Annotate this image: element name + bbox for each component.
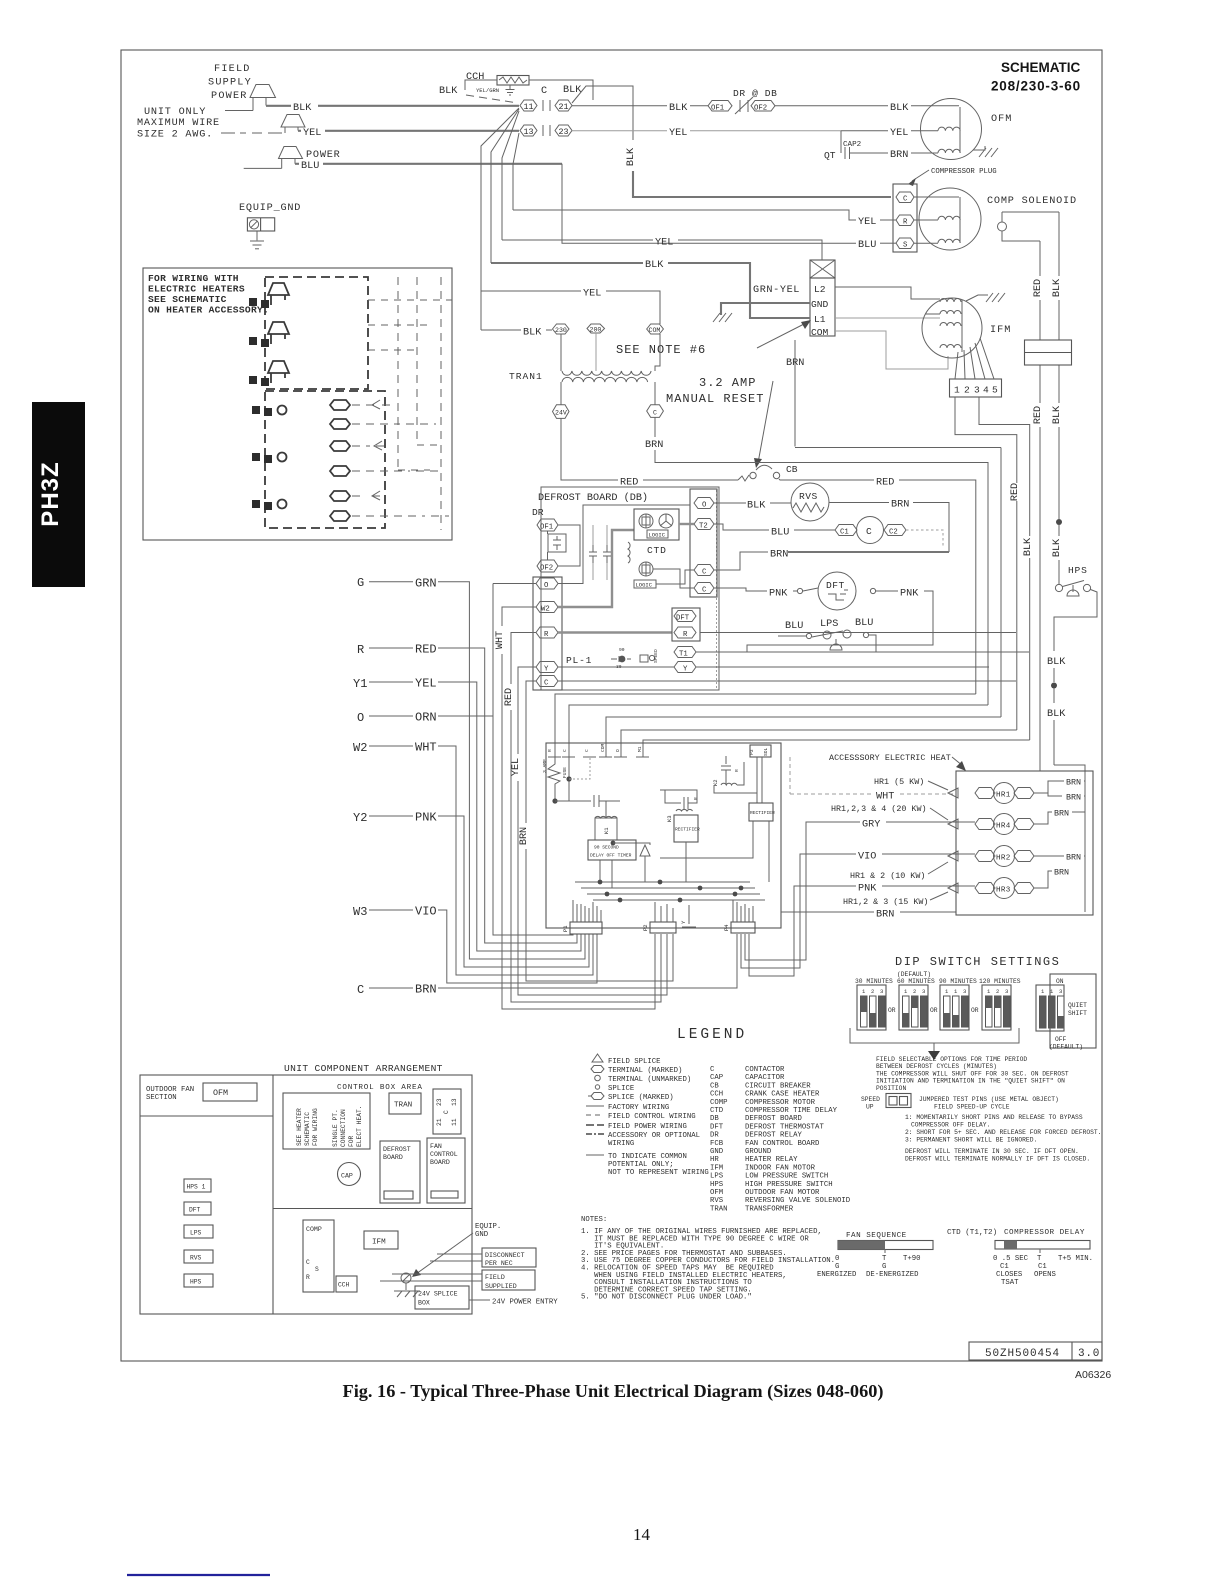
svg-text:LEGEND: LEGEND (677, 1027, 747, 1043)
svg-text:PL-1: PL-1 (566, 655, 592, 666)
svg-text:FOR WIRING WITH: FOR WIRING WITH (148, 273, 239, 284)
svg-text:M1: M1 (637, 746, 643, 752)
svg-text:MAXIMUM WIRE: MAXIMUM WIRE (137, 118, 220, 129)
wire BRN from tran C (645, 417, 988, 705)
svg-text:LPS: LPS (710, 1173, 724, 1181)
svg-text:(DEFAULT): (DEFAULT) (897, 971, 931, 978)
wire BLU T2 to contactor coil (714, 524, 835, 539)
svg-text:C: C (702, 569, 707, 577)
heater relay HR3 (948, 871, 1052, 899)
svg-text:(DEFAULT): (DEFAULT) (1049, 1044, 1083, 1051)
svg-text:ELECT HEAT.: ELECT HEAT. (356, 1105, 363, 1147)
svg-text:CONNECTION: CONNECTION (340, 1109, 347, 1147)
svg-text:FIELD SPEED-UP CYCLE: FIELD SPEED-UP CYCLE (934, 1104, 1010, 1111)
wire BLK contactor 21 to OF1 (572, 103, 708, 114)
svg-text:POWER: POWER (306, 150, 341, 161)
svg-text:C1: C1 (1038, 1263, 1047, 1271)
wire GRY heat relay feed (745, 820, 975, 961)
svg-text:VIO: VIO (858, 852, 876, 863)
run capacitor CAP2 with QT (824, 131, 938, 161)
thermostat terminal R (357, 643, 577, 944)
svg-text:SINGLE PT.: SINGLE PT. (332, 1109, 339, 1147)
DB terminal O (694, 498, 714, 510)
wire C row through board (558, 680, 1016, 682)
svg-text:BLK: BLK (293, 103, 312, 114)
svg-text:JUMPERED TEST PINS (USE METAL: JUMPERED TEST PINS (USE METAL OBJECT) (919, 1096, 1059, 1103)
svg-text:T2: T2 (699, 523, 708, 531)
svg-text:2: 2 (996, 988, 999, 995)
PH3Z model tab (32, 402, 85, 587)
svg-text:DB: DB (710, 1115, 719, 1123)
svg-text:C: C (306, 1259, 310, 1266)
relay K1 (595, 801, 650, 845)
wire BLK solenoid down right bus (1052, 212, 1063, 519)
wire YEL contactor 23 to OFM (572, 128, 938, 139)
svg-text:DEFROST BOARD (DB): DEFROST BOARD (DB) (538, 492, 648, 504)
grounding lug X box (810, 260, 835, 278)
svg-text:ORN: ORN (415, 711, 437, 725)
wire YEL riser to transformer (481, 289, 660, 325)
IFM location box (364, 1231, 398, 1249)
CAP circle (338, 1163, 361, 1186)
equip gnd screw (394, 1273, 420, 1297)
svg-text:TRAN1: TRAN1 (509, 371, 543, 382)
contactor terminal box (433, 1089, 461, 1134)
svg-text:OFF: OFF (1055, 1036, 1067, 1043)
svg-text:TERMINAL (MARKED): TERMINAL (MARKED) (608, 1067, 682, 1075)
svg-text:RECTIFIER: RECTIFIER (675, 827, 700, 833)
svg-text:OFM: OFM (213, 1088, 228, 1098)
svg-text:GRN-YEL: GRN-YEL (753, 285, 800, 296)
svg-text:GRY: GRY (862, 820, 880, 831)
wire BRN heat return (781, 910, 956, 921)
Y terminal (558, 662, 989, 674)
R terminal (674, 627, 1016, 639)
svg-text:C: C (541, 86, 547, 97)
wire L1 from field (491, 262, 643, 264)
svg-text:ON: ON (1056, 978, 1064, 985)
heater plug pin row 4 (330, 466, 441, 476)
svg-text:1: 1 (862, 988, 866, 995)
svg-text:R: R (357, 643, 364, 657)
svg-text:BLU: BLU (855, 618, 873, 629)
svg-text:FIELD SPLICE: FIELD SPLICE (608, 1058, 661, 1066)
crank case heater CCH (439, 72, 593, 102)
svg-text:BRN: BRN (645, 440, 663, 451)
wire BLK junction up from 21 to compressor plug C (572, 86, 891, 197)
svg-text:DFT: DFT (676, 615, 690, 623)
svg-text:DEFROST WILL TERMINATE IN 30 S: DEFROST WILL TERMINATE IN 30 SEC. IF DFT… (905, 1148, 1079, 1155)
svg-text:DEFROST BOARD: DEFROST BOARD (745, 1115, 803, 1123)
svg-text:DFT: DFT (710, 1123, 724, 1131)
FCB terminal M1 (636, 746, 649, 757)
svg-text:23: 23 (559, 127, 569, 137)
svg-text:C: C (562, 749, 568, 752)
svg-text:1: MOMENTARILY SHORT PINS AND: 1: MOMENTARILY SHORT PINS AND RELEASE TO… (905, 1114, 1083, 1121)
svg-text:ENERGIZED: ENERGIZED (817, 1271, 857, 1279)
legend accessory wiring (586, 1132, 700, 1148)
heater relay HR1 (948, 783, 1034, 804)
svg-text:BLK: BLK (1052, 278, 1063, 297)
svg-text:G: G (882, 1263, 886, 1271)
svg-text:OUTDOOR FAN MOTOR: OUTDOOR FAN MOTOR (745, 1189, 820, 1197)
wire BLU power feed (295, 161, 856, 243)
heater accessory dashed harness box upper (265, 277, 368, 389)
svg-text:3: 3 (922, 988, 925, 995)
wire RED solenoid down right bus (1033, 241, 1044, 771)
svg-text:3: 3 (1059, 988, 1062, 995)
DIP block 30 minutes (857, 985, 896, 1030)
field splice arrow L1 feed (225, 85, 276, 111)
svg-text:PNK: PNK (415, 811, 437, 825)
svg-text:CAPACITOR: CAPACITOR (745, 1074, 785, 1082)
thermostat terminal Y2 (353, 811, 589, 968)
svg-text:C: C (443, 1110, 450, 1114)
svg-text:OR: OR (971, 1007, 979, 1014)
svg-text:90: 90 (619, 647, 625, 653)
OFM box (203, 1083, 257, 1101)
svg-text:BRN: BRN (519, 827, 530, 845)
defrost thermostat DFT (818, 572, 856, 610)
svg-text:CAP: CAP (710, 1074, 723, 1082)
CCH box (336, 1276, 357, 1292)
DIP labels (855, 971, 1021, 985)
heater field splice arrow 3 (249, 361, 289, 386)
svg-text:BRN: BRN (786, 358, 804, 369)
svg-text:R: R (683, 631, 688, 639)
svg-text:R: R (544, 631, 549, 639)
svg-text:BRN: BRN (1066, 853, 1081, 863)
heater connection rotated note box (283, 1093, 370, 1149)
svg-text:FIELD POWER WIRING: FIELD POWER WIRING (608, 1123, 687, 1131)
svg-text:24V POWER ENTRY: 24V POWER ENTRY (492, 1299, 558, 1307)
svg-text:0: 0 (835, 1255, 839, 1263)
contactor C terminal 11 (520, 100, 550, 112)
equip gnd callout (412, 1223, 501, 1277)
svg-text:R: R (306, 1274, 310, 1281)
svg-text:60 MINUTES: 60 MINUTES (897, 978, 935, 985)
heater accessory dashed risers (368, 277, 452, 530)
svg-text:3: 3 (1005, 988, 1008, 995)
wire PNK DB C2 to defrost thermostat (714, 588, 818, 600)
svg-text:ELECTRIC HEATERS: ELECTRIC HEATERS (148, 284, 245, 295)
svg-text:G: G (357, 576, 364, 590)
svg-text:LPS: LPS (190, 1230, 202, 1237)
svg-text:LOGIC: LOGIC (636, 582, 653, 589)
FCB terminal C (562, 749, 575, 757)
svg-text:2: SHORT FOR 5+ SEC. AND RELEA: 2: SHORT FOR 5+ SEC. AND RELEASE FOR FOR… (905, 1129, 1102, 1136)
DB terminal T2 (694, 519, 714, 531)
svg-text:PER NEC: PER NEC (485, 1260, 513, 1267)
svg-text:HR2: HR2 (996, 855, 1011, 863)
svg-text:HR1 (5 KW): HR1 (5 KW) (874, 777, 924, 787)
PL-1 pin R (536, 627, 558, 639)
wire RED from PL-1 R down (504, 633, 661, 1003)
svg-text:C: C (903, 196, 908, 204)
svg-text:SPLICE: SPLICE (608, 1085, 634, 1093)
IFM ground (966, 293, 1005, 302)
svg-text:COMP SOLENOID: COMP SOLENOID (987, 196, 1077, 207)
wire RED CB to bus (876, 478, 976, 695)
svg-text:COM: COM (811, 327, 829, 338)
P2 connector (642, 902, 676, 933)
svg-text:LOW PRESSURE SWITCH: LOW PRESSURE SWITCH (745, 1173, 828, 1181)
svg-text:DR: DR (710, 1132, 719, 1140)
contactor C terminal 23 (555, 125, 572, 137)
svg-text:POWER: POWER (211, 91, 248, 102)
DFT location box (184, 1202, 211, 1215)
svg-text:FAN SEQUENCE: FAN SEQUENCE (846, 1232, 907, 1240)
svg-text:CCH: CCH (466, 72, 484, 83)
wire BLK to HPS (1052, 525, 1063, 584)
bus elbow to fan board O (621, 730, 1017, 757)
svg-text:C: C (357, 983, 364, 997)
svg-text:C: C (866, 526, 872, 537)
svg-text:3: 3 (974, 385, 980, 396)
svg-text:DEFROST RELAY: DEFROST RELAY (745, 1132, 803, 1140)
contactor coil terminal C1 (835, 525, 857, 537)
DIP selector bracket (850, 1028, 1019, 1060)
legend factory wiring (586, 1104, 669, 1112)
svg-text:HR3: HR3 (996, 887, 1011, 895)
svg-text:YEL: YEL (415, 677, 437, 691)
svg-text:OR: OR (930, 1007, 938, 1014)
svg-text:HIGH PRESSURE SWITCH: HIGH PRESSURE SWITCH (745, 1181, 833, 1189)
FCB fuse 3 AMP (542, 757, 568, 799)
svg-text:T1: T1 (679, 651, 688, 659)
svg-text:CB: CB (710, 1082, 719, 1090)
PL-1 pin C (536, 676, 558, 688)
wire BLK DB O to RVS (714, 501, 791, 512)
HR3 label line (843, 892, 948, 907)
svg-text:COMPRESSOR MOTOR: COMPRESSOR MOTOR (745, 1099, 816, 1107)
svg-text:BLK: BLK (523, 328, 542, 339)
svg-text:COMP: COMP (710, 1099, 728, 1107)
svg-text:PH3Z: PH3Z (37, 461, 64, 526)
low pressure switch LPS (778, 618, 876, 652)
contactor C terminal 13 (520, 125, 550, 137)
svg-text:RVS: RVS (190, 1255, 202, 1262)
svg-text:FIELD CONTROL WIRING: FIELD CONTROL WIRING (608, 1113, 696, 1121)
svg-text:COM: COM (600, 743, 606, 752)
svg-text:1: 1 (954, 385, 960, 396)
svg-text:COMPRESSOR PLUG: COMPRESSOR PLUG (931, 168, 997, 176)
svg-text:GRN: GRN (415, 577, 437, 591)
COMP box (303, 1220, 334, 1292)
svg-text:ON HEATER ACCESSORY.: ON HEATER ACCESSORY. (148, 305, 269, 316)
svg-text:FUSE: FUSE (562, 767, 568, 778)
svg-text:RED: RED (504, 688, 515, 706)
transformer TRAN1 terminal 230 (553, 324, 570, 334)
svg-text:BRN: BRN (891, 500, 909, 511)
svg-text:REVERSING VALVE SOLENOID: REVERSING VALVE SOLENOID (745, 1197, 851, 1205)
accessory electric heat box (829, 753, 1093, 915)
svg-text:DEFROST: DEFROST (383, 1146, 411, 1153)
svg-text:RED: RED (1033, 406, 1044, 424)
svg-text:SIZE 2 AWG.: SIZE 2 AWG. (137, 130, 213, 141)
quiet shift outer box (1050, 974, 1096, 1048)
svg-text:1: 1 (1050, 988, 1054, 995)
svg-text:FOR: FOR (348, 1135, 355, 1147)
DB terminal C (694, 565, 714, 577)
defrost relay contact OF2 (537, 525, 580, 573)
heater plug pin row 5 (252, 491, 382, 510)
svg-text:C: C (710, 1066, 715, 1074)
svg-text:24V: 24V (555, 410, 567, 417)
wire VIO heat relay feed (741, 852, 975, 969)
compressor plug connector body (893, 184, 917, 252)
HR1 label line (874, 777, 948, 790)
wire BRN from PL-1 C down (519, 681, 673, 981)
svg-text:BETWEEN DEFROST CYCLES (MINUTE: BETWEEN DEFROST CYCLES (MINUTES) (876, 1063, 997, 1070)
svg-text:3.0: 3.0 (1078, 1348, 1100, 1360)
svg-text:Y2: Y2 (353, 811, 367, 825)
svg-text:1: 1 (1041, 988, 1045, 995)
svg-text:R: R (693, 797, 699, 800)
svg-text:QT: QT (824, 150, 836, 161)
heater field splice arrow 2 (249, 322, 289, 347)
svg-text:30 MINUTES: 30 MINUTES (855, 978, 893, 985)
svg-text:TRANSFORMER: TRANSFORMER (745, 1205, 794, 1213)
junction on BLK bus (1056, 519, 1062, 525)
svg-text:C: C (584, 749, 590, 752)
svg-text:POTENTIAL ONLY;: POTENTIAL ONLY; (608, 1161, 674, 1169)
svg-text:11: 11 (451, 1118, 458, 1126)
compressor plug callout (908, 168, 997, 186)
heater plug pin row 6 (330, 511, 449, 521)
transformer secondary terminal C (647, 405, 664, 418)
electric heater accessory note box (143, 268, 452, 540)
FCB terminal COM (599, 743, 612, 757)
FCB terminal C2 (583, 749, 596, 757)
svg-text:5. "DO NOT DISCONNECT PLUG UND: 5. "DO NOT DISCONNECT PLUG UNDER LOAD." (581, 1294, 752, 1302)
HPS location box (184, 1274, 213, 1287)
wire WHT dashed heat feed (790, 757, 956, 803)
svg-text:W2: W2 (353, 741, 367, 755)
DFT relay box (672, 608, 700, 641)
svg-text:3: PERMANENT SHORT WILL BE IGN: 3: PERMANENT SHORT WILL BE IGNORED. (905, 1137, 1037, 1144)
24v splice box (415, 1286, 558, 1309)
PL-1 pin Y (536, 662, 558, 674)
heater relay HR2 (948, 846, 1085, 867)
svg-text:OF2: OF2 (754, 105, 767, 113)
defrost relay coil box (548, 534, 566, 552)
svg-text:CB: CB (786, 464, 798, 475)
bus elbow to fan board M1 (643, 740, 1030, 757)
svg-text:P1: P1 (562, 925, 569, 932)
svg-text:DE-ENERGIZED: DE-ENERGIZED (866, 1271, 919, 1279)
svg-text:C: C (544, 680, 549, 688)
svg-text:Y1: Y1 (353, 677, 367, 691)
wire BLU to plug S (858, 240, 896, 251)
HR1 BRN wires (1034, 778, 1085, 803)
PL-1 pin W2 (536, 602, 558, 614)
svg-text:BLK: BLK (747, 501, 766, 512)
svg-text:21: 21 (559, 102, 569, 112)
svg-text:Y: Y (680, 920, 687, 924)
svg-text:3: 3 (880, 988, 883, 995)
svg-text:BLK: BLK (1052, 538, 1063, 557)
svg-text:DEFROST THERMOSTAT: DEFROST THERMOSTAT (745, 1123, 824, 1131)
svg-text:BLK: BLK (669, 103, 688, 114)
svg-text:LPS: LPS (820, 619, 838, 630)
svg-text:COM: COM (649, 327, 661, 334)
svg-text:FIELD: FIELD (485, 1274, 505, 1281)
svg-text:CTD (T1,T2): CTD (T1,T2) (947, 1229, 997, 1237)
heater resistor block on RED BLK bus (1025, 340, 1072, 365)
svg-text:BRN: BRN (1054, 809, 1069, 819)
svg-text:OFM: OFM (710, 1189, 723, 1197)
svg-text:GND: GND (710, 1148, 724, 1156)
svg-text:DR @ DB: DR @ DB (733, 88, 778, 99)
svg-text:4: 4 (983, 385, 989, 396)
thermostat terminal C (357, 934, 737, 997)
svg-text:SEE NOTE #6: SEE NOTE #6 (616, 343, 706, 357)
svg-text:L2: L2 (814, 284, 826, 295)
svg-text:SECTION: SECTION (146, 1094, 177, 1102)
svg-text:NOTES:: NOTES: (581, 1216, 607, 1224)
legend abbreviations (710, 1066, 851, 1213)
DFT terminal (674, 611, 696, 623)
svg-text:IFM: IFM (710, 1164, 723, 1172)
field splice arrow POWER feed (244, 147, 341, 169)
svg-text:3: 3 (963, 988, 966, 995)
legend field power wiring (586, 1123, 687, 1131)
svg-text:OF1: OF1 (540, 524, 554, 532)
svg-text:DISCONNECT: DISCONNECT (485, 1252, 525, 1259)
svg-text:SPLICE (MARKED): SPLICE (MARKED) (608, 1094, 674, 1102)
svg-text:200: 200 (590, 327, 602, 334)
wire GND to chassis ground (713, 303, 810, 322)
plug terminal R (896, 215, 914, 227)
outdoor fan section label (146, 1086, 194, 1102)
svg-text:BRN: BRN (890, 150, 908, 161)
wire COM to IFM (835, 331, 948, 369)
comp solenoid circuit (998, 212, 1060, 241)
wire WHT from PL-1 W2 down (495, 607, 655, 1009)
svg-text:YEL/GRN: YEL/GRN (476, 87, 499, 94)
DIP note text (876, 1056, 1069, 1092)
svg-text:BOX: BOX (418, 1300, 430, 1307)
svg-text:208/230-3-60: 208/230-3-60 (991, 79, 1081, 94)
svg-text:SEE HEATER: SEE HEATER (296, 1108, 303, 1146)
wire BRN from COM down (786, 340, 1001, 448)
svg-text:50ZH500454: 50ZH500454 (985, 1348, 1060, 1360)
svg-text:TERMINAL (UNMARKED): TERMINAL (UNMARKED) (608, 1076, 691, 1084)
svg-text:YEL: YEL (583, 289, 601, 300)
svg-text:C: C (702, 587, 707, 595)
defrost board internal red wire R (558, 631, 672, 633)
svg-text:HPS 1: HPS 1 (187, 1184, 206, 1191)
svg-text:R: R (903, 219, 908, 227)
defrost board location box (380, 1141, 420, 1203)
svg-text:1: 1 (987, 988, 991, 995)
svg-text:13: 13 (451, 1098, 458, 1106)
svg-text:BLU: BLU (785, 621, 803, 632)
svg-text:RED: RED (1033, 279, 1044, 297)
svg-text:OPENS: OPENS (1034, 1271, 1057, 1279)
svg-text:2: 2 (964, 385, 970, 396)
svg-text:BRN: BRN (770, 550, 788, 561)
P1 connector (562, 900, 602, 934)
svg-text:CTD: CTD (710, 1107, 724, 1115)
svg-text:EQUIP_GND: EQUIP_GND (239, 203, 301, 214)
heater plug pin row 2 (330, 419, 436, 429)
svg-text:SUPPLIED: SUPPLIED (485, 1283, 517, 1290)
rectifier module (660, 803, 775, 882)
defrost board internal caps (589, 525, 630, 580)
svg-text:1: 1 (945, 988, 949, 995)
